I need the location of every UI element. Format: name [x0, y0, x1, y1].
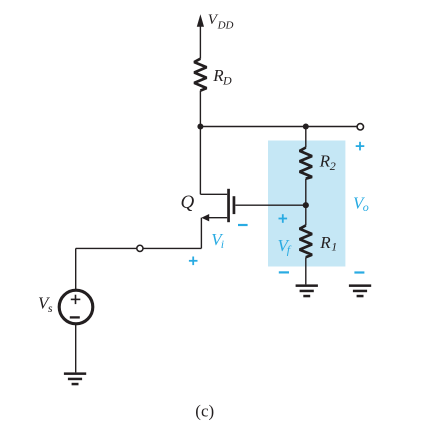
- wire input horizontal left: [76, 247, 137, 249]
- VDD supply arrow: [197, 14, 204, 59]
- wire top rail: [200, 126, 356, 128]
- resistor RD: [194, 59, 206, 91]
- label Vs: [38, 293, 53, 315]
- minus Vf: [279, 271, 289, 273]
- ground output: [349, 284, 371, 297]
- svg-text:Q: Q: [181, 192, 195, 213]
- wire Vs top lead: [75, 248, 77, 289]
- svg-text:i: i: [221, 237, 224, 251]
- wire R1 bottom lead: [305, 257, 307, 284]
- output terminal: [357, 124, 363, 130]
- label R1: [319, 233, 337, 254]
- transistor Q drain wire: [200, 193, 227, 195]
- plus input: [189, 257, 198, 266]
- svg-text:DD: DD: [217, 20, 234, 32]
- svg-text:1: 1: [331, 240, 337, 254]
- wire drain vertical: [199, 91, 201, 195]
- svg-text:R: R: [319, 152, 331, 171]
- label Vf: [278, 236, 292, 257]
- source Vs circle: [59, 290, 93, 324]
- plus in Vs: [71, 295, 81, 304]
- resistor R2: [300, 148, 312, 179]
- transistor Q channel bar: [227, 189, 230, 222]
- ground under R1: [296, 284, 318, 297]
- transistor Q gate arrow wire: [201, 214, 227, 221]
- ground Vs: [64, 372, 86, 385]
- resistor R1: [300, 225, 312, 257]
- minus output: [354, 271, 364, 273]
- input terminal: [137, 245, 143, 251]
- plus Vf: [279, 214, 288, 223]
- svg-text:R: R: [319, 233, 331, 252]
- plus output: [356, 142, 365, 151]
- feedback network highlight box: [268, 141, 345, 267]
- minus in Vs: [70, 316, 80, 318]
- transistor Q gate bar: [233, 196, 236, 214]
- label Vi: [211, 230, 224, 251]
- label R2: [319, 152, 336, 174]
- wire input horizontal right: [143, 247, 201, 249]
- node R2 R1 junction: [303, 202, 309, 208]
- svg-text:2: 2: [330, 159, 336, 173]
- svg-text:s: s: [48, 301, 53, 315]
- wire Vs bottom lead: [75, 325, 77, 373]
- label VDD: [208, 12, 234, 31]
- node drain junction: [197, 124, 203, 130]
- wire source to feedback node: [235, 204, 305, 206]
- svg-text:(c): (c): [195, 401, 214, 420]
- svg-text:D: D: [222, 74, 232, 88]
- svg-text:o: o: [363, 200, 369, 214]
- label RD: [212, 66, 232, 88]
- label Vo: [353, 194, 369, 215]
- wire R2 bottom to R1 top: [305, 179, 307, 226]
- node R2 top junction: [303, 124, 309, 130]
- wire R2 top lead: [305, 127, 307, 148]
- wire gate down: [200, 218, 202, 249]
- minus source: [238, 224, 248, 226]
